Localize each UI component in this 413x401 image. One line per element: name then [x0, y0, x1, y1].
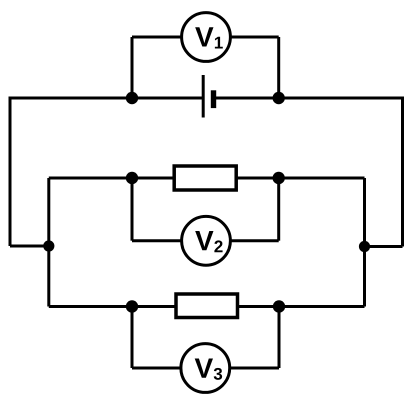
- node dot R1 row right: [273, 172, 285, 184]
- node dot top-right (V1 tap right): [273, 92, 285, 104]
- wire V3 branch bottom-left horizontal: [132, 367, 182, 370]
- wire V2 branch bottom-right horizontal: [229, 239, 279, 242]
- voltmeter U1 circle: [182, 13, 231, 62]
- wire outer left vertical: [9, 97, 12, 247]
- wire outer right vertical: [401, 97, 404, 247]
- wire V1 branch top-left horizontal: [132, 36, 183, 39]
- node dot top-left (V1 tap left): [126, 92, 138, 104]
- voltmeter U1 label V1: [195, 27, 223, 48]
- wire V2 branch bottom-left horizontal: [132, 239, 183, 242]
- wire left inner vertical (R1 row to R2 row): [47, 178, 50, 307]
- wire V3 branch left vertical: [131, 307, 134, 369]
- wire R2 row left segment: [49, 305, 177, 308]
- wire top bus right (battery row, right of cell): [213, 97, 403, 100]
- node dot R2 row right: [273, 300, 285, 312]
- wire top bus left (battery row, left of cell): [10, 97, 203, 100]
- voltmeter U2 label V2: [195, 231, 222, 252]
- wire R1 row left segment: [49, 177, 175, 180]
- wire V1 branch top-right horizontal: [229, 36, 279, 39]
- battery cell B1 long plate (positive): [202, 75, 205, 118]
- wire V3 branch right vertical: [278, 307, 281, 369]
- node dot mid right junction: [359, 241, 370, 252]
- resistor R1: [174, 166, 236, 190]
- node dot R1 row left: [126, 172, 138, 184]
- wire V1 branch left vertical: [131, 37, 134, 98]
- wire V2 branch left vertical: [131, 178, 134, 241]
- wire R2 row right segment: [237, 305, 365, 308]
- wire left jog horizontal: [10, 245, 49, 248]
- wire R1 row right segment: [236, 177, 365, 180]
- wire V2 branch right vertical: [277, 178, 280, 241]
- voltmeter U2 circle: [182, 216, 231, 265]
- wire right jog horizontal: [365, 245, 403, 248]
- node dot R2 row left: [126, 300, 138, 312]
- battery cell B1 short thick plate (negative): [211, 90, 216, 108]
- node dot mid left junction: [43, 240, 54, 251]
- wire V1 branch right vertical: [277, 37, 280, 98]
- voltmeter U3 label V3: [195, 358, 222, 379]
- voltmeter U3 circle: [181, 344, 230, 393]
- wire right inner vertical (R1 row to R2 row): [363, 178, 366, 307]
- wire V3 branch bottom-right horizontal: [228, 367, 279, 370]
- resistor R2: [176, 294, 238, 318]
